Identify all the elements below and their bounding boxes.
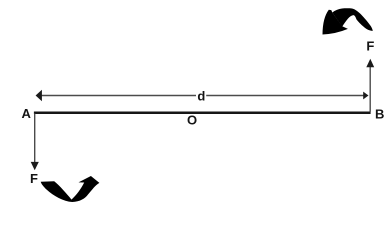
rod AB	[34, 111, 371, 114]
svg-text:d: d	[197, 89, 205, 104]
rotation arrow (top right, curved, pointing down-left)	[323, 8, 373, 34]
dimension line d (double-headed arrow)	[36, 90, 369, 101]
svg-text:B: B	[375, 107, 384, 122]
svg-text:O: O	[187, 113, 197, 128]
rotation arrow (bottom left, curved, pointing up-right)	[41, 176, 100, 202]
force arrow at A (downward)	[31, 114, 39, 171]
svg-text:A: A	[22, 106, 32, 121]
force arrow at B (upward)	[366, 59, 374, 112]
svg-text:F: F	[30, 171, 38, 186]
svg-text:F: F	[366, 38, 374, 53]
